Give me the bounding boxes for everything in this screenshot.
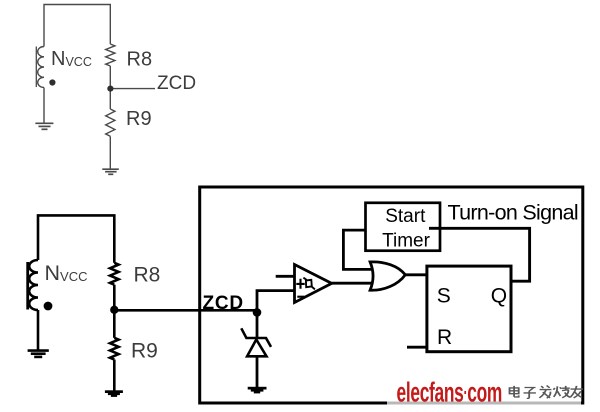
svg-text:R: R bbox=[437, 326, 452, 349]
ground (bottom, under inductor, bar style) bbox=[28, 351, 49, 357]
node ZCD (bottom) junction dot at divider bbox=[110, 306, 118, 314]
svg-text:elecfans·com: elecfans·com bbox=[397, 376, 503, 407]
wire stub inside Start Timer box bbox=[429, 227, 440, 230]
wire comparator output to OR gate bbox=[332, 282, 377, 285]
ground (top, under R9) bbox=[102, 169, 119, 174]
watermark chinese 发 bbox=[539, 386, 551, 399]
inductor Nvcc (bottom) winding bbox=[29, 260, 38, 310]
inductor Nvcc (bottom) core bar bbox=[26, 262, 29, 310]
svg-text:R8: R8 bbox=[134, 264, 161, 287]
wire Q output feedback to Start Timer bbox=[440, 228, 530, 281]
node ZCD junction dot (inside box) bbox=[253, 308, 262, 317]
comparator hysteresis glyph bbox=[303, 278, 315, 290]
inductor Nvcc (top) winding bbox=[38, 47, 44, 88]
wire node to R9 (bottom) bbox=[113, 310, 116, 338]
comparator plus sign bbox=[296, 279, 304, 289]
wire ZCD node up to comparator input bbox=[257, 291, 295, 313]
svg-text:Start: Start bbox=[385, 206, 426, 227]
ground (under zener, solid style) bbox=[248, 387, 267, 394]
wire top loop bbox=[44, 5, 110, 47]
op-amp comparator U1 bbox=[295, 265, 332, 303]
svg-text:Turn-on Signal: Turn-on Signal bbox=[448, 201, 578, 225]
zener diode D1 triangle bbox=[247, 340, 266, 357]
resistor R9 (top) zigzag bbox=[106, 109, 115, 136]
wire node to R9 bbox=[109, 89, 111, 109]
zener diode D1 cathode bar bbox=[241, 328, 271, 347]
svg-text:NVCC: NVCC bbox=[51, 48, 92, 70]
wire R8 to node (bottom) bbox=[113, 285, 116, 311]
wire Start Timer left to OR gate input bbox=[343, 230, 377, 269]
OR gate U2 bbox=[370, 262, 405, 290]
wire below inductor (bottom) bbox=[37, 310, 40, 350]
watermark chinese 友 bbox=[570, 386, 583, 398]
wire R8 to node bbox=[109, 66, 111, 89]
wire OR output to S input bbox=[405, 273, 427, 276]
wire ZCD net (bottom) bbox=[114, 309, 257, 312]
wire R9 to ground bbox=[109, 136, 111, 168]
wire R9 to ground (bottom) bbox=[113, 360, 116, 391]
ground (bottom, under R9, solid style) bbox=[105, 390, 123, 397]
resistor R8 (bottom) zigzag bbox=[110, 263, 119, 285]
inductor Nvcc (bottom) phase dot bbox=[44, 302, 53, 311]
watermark chinese 子 bbox=[524, 388, 536, 399]
watermark background halo bbox=[387, 378, 581, 408]
svg-text:R8: R8 bbox=[127, 48, 153, 70]
ground (top, under inductor) bbox=[35, 123, 53, 129]
wire comparator reference stub bbox=[276, 275, 295, 278]
wire top loop (bottom circuit) bbox=[38, 215, 114, 262]
svg-text:R9: R9 bbox=[131, 340, 158, 363]
resistor R8 (top) zigzag bbox=[106, 44, 115, 66]
wire ZCD node down to zener bbox=[256, 312, 259, 338]
node ZCD (top) junction dot bbox=[107, 86, 113, 92]
watermark chinese 烧 bbox=[553, 386, 570, 398]
svg-text:Q: Q bbox=[491, 285, 507, 308]
watermark chinese 电 bbox=[510, 386, 519, 397]
inductor Nvcc (top) phase dot bbox=[49, 79, 55, 85]
svg-text:S: S bbox=[437, 285, 451, 308]
svg-text:Timer: Timer bbox=[382, 230, 431, 251]
comparator minus sign bbox=[297, 296, 304, 298]
wire below inductor bbox=[43, 88, 45, 123]
wire R input stub bbox=[407, 346, 427, 349]
big box outline bbox=[200, 187, 583, 403]
flip-flop U3 box bbox=[427, 266, 511, 352]
wire zener to ground bbox=[256, 356, 259, 387]
wire ZCD stub bbox=[110, 88, 155, 90]
svg-text:NVCC: NVCC bbox=[45, 261, 88, 285]
svg-text:R9: R9 bbox=[126, 108, 152, 130]
Start Timer box bbox=[366, 203, 441, 251]
svg-text:ZCD: ZCD bbox=[157, 73, 196, 94]
inductor Nvcc (top) core bar bbox=[35, 47, 37, 88]
resistor R9 (bottom) zigzag bbox=[110, 338, 119, 360]
svg-text:ZCD: ZCD bbox=[203, 293, 244, 314]
